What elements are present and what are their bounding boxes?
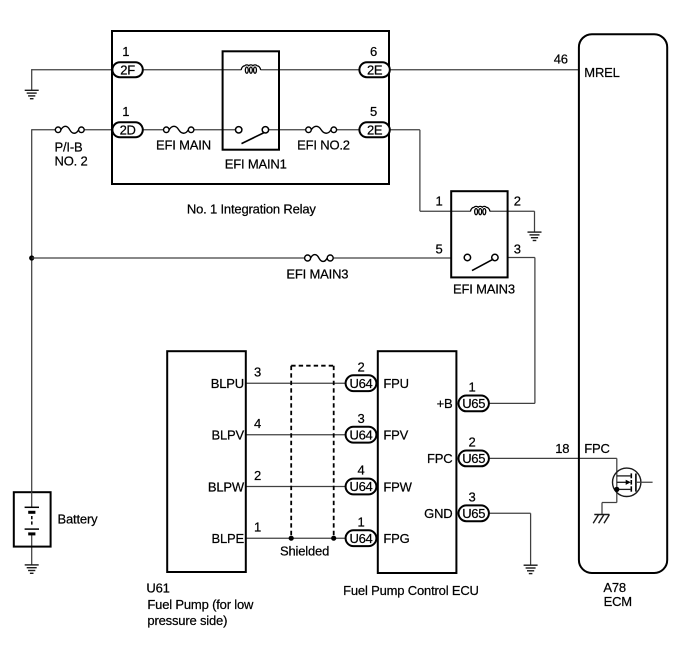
svg-text:4: 4 bbox=[254, 416, 261, 431]
svg-text:3: 3 bbox=[468, 490, 475, 505]
svg-text:BLPV: BLPV bbox=[211, 428, 244, 443]
svg-text:GND: GND bbox=[424, 506, 452, 521]
svg-text:FPU: FPU bbox=[383, 376, 408, 391]
svg-text:6: 6 bbox=[370, 44, 377, 59]
svg-text:U64: U64 bbox=[350, 427, 373, 442]
svg-text:ECM: ECM bbox=[604, 594, 632, 609]
svg-text:1: 1 bbox=[254, 520, 261, 535]
svg-text:5: 5 bbox=[370, 104, 377, 119]
svg-text:FPC: FPC bbox=[427, 451, 452, 466]
svg-text:18: 18 bbox=[555, 441, 569, 456]
svg-text:Fuel Pump (for low: Fuel Pump (for low bbox=[147, 597, 254, 612]
svg-text:2F: 2F bbox=[120, 62, 135, 77]
svg-text:2: 2 bbox=[357, 359, 364, 374]
svg-text:U64: U64 bbox=[350, 531, 373, 546]
svg-text:2: 2 bbox=[514, 193, 521, 208]
svg-text:U65: U65 bbox=[462, 396, 485, 411]
svg-text:FPG: FPG bbox=[383, 531, 409, 546]
svg-text:U64: U64 bbox=[350, 479, 373, 494]
svg-text:U64: U64 bbox=[350, 376, 373, 391]
svg-text:1: 1 bbox=[122, 104, 129, 119]
svg-text:FPC: FPC bbox=[584, 441, 609, 456]
svg-text:+B: +B bbox=[437, 396, 453, 411]
svg-text:2: 2 bbox=[468, 435, 475, 450]
svg-text:2E: 2E bbox=[367, 62, 383, 77]
svg-text:1: 1 bbox=[468, 380, 475, 395]
svg-text:46: 46 bbox=[554, 51, 568, 66]
svg-text:5: 5 bbox=[435, 242, 442, 257]
svg-text:3: 3 bbox=[514, 242, 521, 257]
svg-text:pressure side): pressure side) bbox=[147, 613, 227, 628]
svg-text:MREL: MREL bbox=[584, 65, 619, 80]
svg-text:No. 1 Integration Relay: No. 1 Integration Relay bbox=[187, 202, 317, 217]
svg-text:P/I-B: P/I-B bbox=[55, 140, 83, 155]
svg-text:2: 2 bbox=[254, 468, 261, 483]
svg-text:2E: 2E bbox=[367, 123, 383, 138]
svg-text:U65: U65 bbox=[462, 506, 485, 521]
svg-text:EFI MAIN1: EFI MAIN1 bbox=[225, 156, 287, 171]
svg-text:3: 3 bbox=[254, 365, 261, 380]
svg-text:1: 1 bbox=[435, 193, 442, 208]
svg-text:U65: U65 bbox=[462, 451, 485, 466]
svg-text:EFI MAIN3: EFI MAIN3 bbox=[453, 282, 515, 297]
svg-text:4: 4 bbox=[357, 463, 364, 478]
svg-text:1: 1 bbox=[357, 514, 364, 529]
svg-text:Fuel Pump Control ECU: Fuel Pump Control ECU bbox=[343, 583, 479, 598]
svg-text:FPW: FPW bbox=[383, 479, 412, 494]
svg-text:BLPE: BLPE bbox=[211, 531, 244, 546]
svg-text:Shielded: Shielded bbox=[280, 544, 329, 559]
svg-text:3: 3 bbox=[357, 411, 364, 426]
svg-text:EFI NO.2: EFI NO.2 bbox=[297, 138, 350, 153]
svg-text:BLPW: BLPW bbox=[208, 479, 245, 494]
svg-text:1: 1 bbox=[122, 44, 129, 59]
svg-text:NO. 2: NO. 2 bbox=[55, 153, 88, 168]
svg-text:2D: 2D bbox=[120, 123, 136, 138]
svg-text:BLPU: BLPU bbox=[211, 376, 244, 391]
svg-text:U61: U61 bbox=[146, 581, 169, 596]
svg-text:EFI MAIN: EFI MAIN bbox=[156, 138, 211, 153]
svg-text:EFI MAIN3: EFI MAIN3 bbox=[286, 267, 348, 282]
svg-text:Battery: Battery bbox=[58, 512, 99, 527]
svg-text:FPV: FPV bbox=[383, 428, 408, 443]
